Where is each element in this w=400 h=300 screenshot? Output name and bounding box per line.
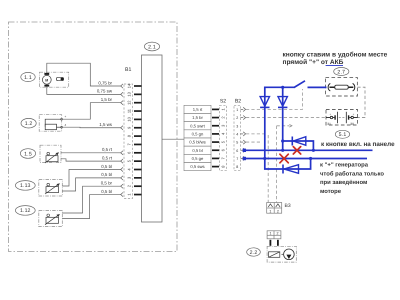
connector B3 housing: [267, 203, 282, 214]
svg-text:30: 30: [350, 122, 354, 126]
underline below АКБ: [326, 65, 343, 67]
relay coil: [269, 252, 280, 257]
wire label box 1,5 rt (row 1): [184, 105, 211, 113]
B1 pin 6: [121, 151, 142, 155]
svg-text:3: 3: [236, 124, 238, 128]
B2 pin 6: [236, 148, 245, 153]
svg-text:B2: B2: [235, 99, 241, 105]
S2 pin 3: [212, 124, 226, 127]
svg-text:2.2: 2.2: [250, 250, 258, 256]
svg-text:0,75 br: 0,75 br: [98, 80, 112, 85]
wire label box 0,5 ge (row 7): [184, 154, 211, 162]
connector S2 housing: [220, 105, 227, 170]
B1 pin 11: [127, 108, 142, 113]
svg-text:1,5 rt: 1,5 rt: [193, 107, 203, 112]
wire to B3 pin 1 (dashed): [267, 135, 269, 203]
svg-text:14: 14: [127, 83, 132, 88]
dashed stub from B3 pin 2 wire at row 3: [277, 125, 290, 127]
wire 0,5 rt to B1 pin 5: [61, 159, 121, 161]
svg-text:0,5 bl/ws: 0,5 bl/ws: [189, 140, 206, 145]
sensor (component 1.5): [40, 145, 61, 163]
battery 5.1 label: [335, 130, 349, 138]
blue vertical wire V1: [264, 87, 266, 159]
svg-text:1.5: 1.5: [24, 151, 32, 157]
svg-text:12: 12: [127, 100, 132, 105]
B1 pin 3: [121, 176, 142, 180]
wire to B3 pin 2 (dashed): [276, 126, 278, 203]
wire label box 0,5 sws (row 8): [184, 163, 211, 171]
cut mark X on row 7: [280, 154, 288, 163]
diode D1 on V1 (cathode down): [260, 97, 269, 108]
component label 1.1: [21, 72, 35, 81]
svg-text:+: +: [65, 115, 67, 119]
blue vertical wire V2: [282, 87, 284, 151]
svg-text:1.13: 1.13: [20, 183, 31, 189]
junction node (282.7,150.3): [281, 149, 284, 152]
wire 1,5 br to B1 pin 12: [63, 103, 122, 120]
svg-text:1.1: 1.1: [24, 75, 32, 81]
blue tap at B2 pin 7: [243, 157, 246, 160]
relay pin 1 terminal: [270, 240, 272, 246]
connector B1 housing: [124, 84, 133, 199]
blue wire: switch to fuse 2.7: [308, 86, 327, 88]
sender G (component 1.2): [39, 115, 66, 132]
wire 0,5 br to B1 pin 2: [62, 186, 121, 213]
B2 pin 4: [236, 132, 245, 137]
relay connector plug (pins 1 2): [267, 231, 281, 239]
junction node (282.7,141.0): [281, 139, 284, 142]
svg-text:прямой "+" от АКБ: прямой "+" от АКБ: [283, 59, 344, 66]
svg-text:0,5 sws: 0,5 sws: [190, 164, 204, 169]
svg-text:7: 7: [236, 157, 238, 161]
svg-text:0,75 sw: 0,75 sw: [97, 89, 113, 94]
svg-text:1,5 br: 1,5 br: [192, 115, 203, 120]
B3 pin 1 socket: [268, 204, 272, 214]
svg-text:8: 8: [236, 165, 238, 169]
B2 pin 3: [236, 124, 238, 128]
junction node (310.6,158.5): [309, 157, 312, 160]
B1 pin 5: [121, 159, 142, 163]
wire label box 0,5 swrt (row 3): [184, 122, 211, 130]
wire 0,75 br to B1 pin 14: [47, 63, 121, 86]
svg-text:1: 1: [270, 232, 272, 236]
B1 pin 14: [121, 83, 142, 88]
blue wire: top rail from V1 to switch: [265, 86, 294, 88]
B2 pin 1: [236, 107, 245, 112]
relay pin 2 terminal: [277, 240, 279, 246]
component label 1.12: [15, 206, 35, 216]
svg-text:B1: B1: [125, 67, 131, 73]
wire label box 0,5 bl (row 6): [184, 146, 211, 154]
B3 pin 2 socket: [276, 204, 280, 214]
wire 0,5 bl to B1 pin 4: [62, 170, 121, 187]
svg-text:чтоб работала только: чтоб работала только: [320, 170, 384, 177]
svg-text:1,5 ws: 1,5 ws: [99, 122, 112, 127]
original wire stub B2 pin 5: [246, 141, 261, 143]
blue wire row 7 (B2 pin 7 to generator): [243, 158, 367, 160]
B1 pin 13: [121, 91, 142, 96]
junction node (264.8,158.5): [263, 157, 266, 160]
diode D2 on V2 (cathode down): [278, 97, 287, 108]
svg-text:10: 10: [127, 116, 132, 121]
annotation: place button note: [283, 52, 388, 66]
svg-text:0,5 br: 0,5 br: [101, 181, 113, 186]
switch S (added) lever: [294, 81, 305, 88]
svg-text:S2: S2: [220, 99, 226, 105]
S2 pin 5: [212, 140, 226, 143]
S2 pin 7: [212, 157, 226, 160]
wire label box 1,5 br (row 2): [184, 113, 211, 121]
S2 pin 8: [212, 165, 226, 168]
control module 2.1 box: [142, 55, 163, 222]
S2 pin 1: [212, 108, 226, 111]
svg-text:0,5 bl: 0,5 bl: [101, 164, 112, 169]
B1 pin 7: [127, 143, 142, 146]
B1 pin 1: [121, 192, 142, 196]
original wire from B2 pin 2 to battery (dashed): [246, 117, 326, 119]
svg-text:+: +: [353, 113, 355, 117]
annotation: to generator: [320, 162, 384, 195]
B1 pin 12: [121, 100, 142, 105]
svg-text:5: 5: [236, 141, 238, 145]
diode D4 bypass over row 7 cut: [265, 158, 311, 174]
blue tap at B2 pin 6: [243, 149, 246, 152]
B2 pin 8: [236, 165, 238, 169]
svg-text:кнопку ставим в удобном месте: кнопку ставим в удобном месте: [283, 52, 388, 59]
component label 1.5: [20, 149, 35, 159]
B1 pin 4: [121, 167, 142, 171]
connector arrow at row 3 stub: [289, 125, 292, 128]
svg-text:31: 31: [327, 122, 331, 126]
svg-text:M: M: [45, 78, 48, 82]
B1 pin 9: [121, 126, 142, 130]
svg-text:6: 6: [236, 149, 238, 153]
S2 pin 4: [212, 132, 226, 135]
control module 2.1 label: [144, 42, 159, 51]
svg-text:B3: B3: [285, 203, 291, 209]
wire 0,75 sw to B1 pin 13: [47, 86, 121, 94]
svg-text:2: 2: [277, 232, 279, 236]
wire harness boundary (dash-dot box): [9, 22, 178, 252]
fuse 2.7 housing (dashed box): [326, 78, 358, 96]
svg-text:к кнопке вкл. на панеле: к кнопке вкл. на панеле: [321, 141, 395, 148]
B2 pin 5: [236, 140, 245, 145]
sensor (component 1.12): [39, 210, 63, 226]
svg-text:0,5 ge: 0,5 ge: [192, 156, 204, 161]
svg-text:1,5 br: 1,5 br: [101, 97, 113, 102]
svg-text:5.1: 5.1: [339, 132, 347, 138]
svg-text:0,5 gn: 0,5 gn: [192, 132, 204, 137]
original wire from B2 pin 1 to fuse (dashed, removed): [246, 89, 303, 109]
svg-text:0,5 rt: 0,5 rt: [102, 155, 113, 160]
svg-text:1: 1: [269, 209, 271, 213]
cut mark X on row 6: [293, 147, 300, 154]
svg-text:0,5 swrt: 0,5 swrt: [190, 123, 205, 128]
fuse element: [328, 83, 355, 91]
svg-text:4: 4: [236, 133, 238, 137]
component label 1.13: [15, 181, 35, 191]
svg-text:0,5 rt: 0,5 rt: [102, 147, 113, 152]
blue wire row 6 (B2 pin 6 to button): [243, 149, 373, 151]
wire 0,5 bl to B1 pin 1: [62, 195, 121, 219]
sensor (component 1.13): [39, 179, 63, 196]
svg-text:1.2: 1.2: [25, 121, 33, 127]
wire 0,5 bl to B1 pin 3: [62, 178, 121, 191]
svg-text:при заведённом: при заведённом: [320, 179, 367, 186]
wire 0,5 rt to B1 pin 6: [61, 152, 121, 154]
relay 2.2 body (dashed box): [267, 246, 296, 262]
svg-text:моторе: моторе: [320, 189, 342, 195]
battery 5.1 housing (dashed box): [326, 110, 358, 126]
B1 pin 2: [121, 184, 142, 188]
svg-text:к "+" генератора: к "+" генератора: [320, 162, 369, 169]
svg-text:0,5 bl: 0,5 bl: [101, 189, 112, 194]
junction node (313.4,150.3): [312, 149, 315, 152]
connector B2 housing: [234, 105, 241, 170]
svg-text:1.12: 1.12: [20, 208, 31, 214]
wire from module 2.1 to label stack: [162, 138, 184, 140]
B2 pin 7: [236, 156, 245, 161]
buzzer symbol: [282, 249, 295, 260]
diode D3 bypass over row 6 cut: [283, 137, 314, 151]
junction node (282.7,87.3): [281, 86, 284, 89]
svg-text:1: 1: [236, 108, 238, 112]
svg-text:0,5 bl: 0,5 bl: [101, 172, 112, 177]
svg-text:2: 2: [277, 209, 279, 213]
component label 1.2: [21, 118, 36, 128]
S2 pin 6: [212, 148, 226, 151]
svg-text:2.1: 2.1: [148, 44, 156, 50]
original wire stub B2 pin 4: [246, 133, 266, 135]
wire label box 0,5 bl/ws (row 5): [184, 138, 211, 146]
svg-text:2.7: 2.7: [337, 69, 345, 75]
battery symbol: [326, 112, 358, 126]
svg-text:2: 2: [236, 116, 238, 120]
svg-text:0,5 bl: 0,5 bl: [192, 148, 202, 153]
wire 1,5 ws to B1 pin 9: [63, 126, 122, 129]
svg-text:13: 13: [127, 91, 132, 96]
B2 pin 2: [236, 115, 245, 120]
svg-text:+: +: [329, 113, 331, 117]
B1 pin 10: [127, 116, 142, 121]
gauge M1 (component 1.1): [40, 72, 69, 87]
S2 pin 2: [212, 116, 226, 119]
B1 pin 8: [127, 134, 142, 137]
relay 2.2 label: [247, 248, 261, 256]
dashed link fuse to battery: [357, 87, 365, 117]
wire label box 0,5 gn (row 4): [184, 130, 211, 138]
fuse 2.7 label: [334, 68, 349, 76]
